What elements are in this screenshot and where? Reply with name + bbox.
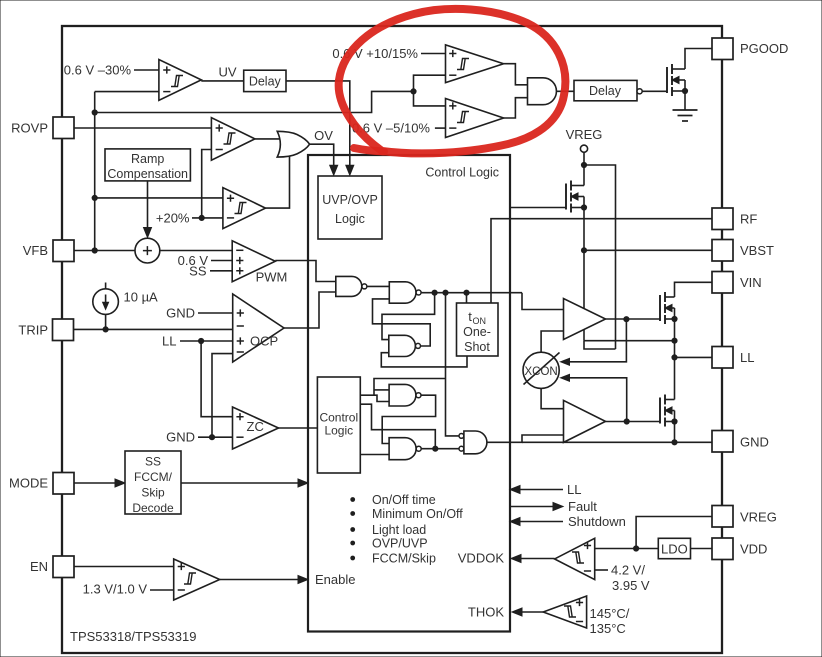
wire RF pin to tON one-shot [491,219,712,303]
comparator OV [211,118,255,161]
wire VDDOK to box [517,558,555,560]
svg-text:GND: GND [166,305,195,320]
svg-text:SS: SS [189,264,207,279]
svg-text:4.2 V/: 4.2 V/ [611,563,645,578]
svg-text:1.3 V/1.0 V: 1.3 V/1.0 V [83,581,148,596]
wire VREG branch right and down [584,165,616,349]
transistor HS-FET gate bar [659,295,661,321]
wire VREG down [583,152,585,185]
wire OR output OV to UVP/OVP logic [310,144,334,169]
svg-text:On/Off time: On/Off time [372,493,436,507]
svg-text:OVP/UVP: OVP/UVP [372,537,428,551]
bullet list [351,498,355,502]
pin TRIP [53,319,74,341]
wire OV comparator plus input (from ROVP) [74,127,211,129]
wire 0.6V ref to PWM [211,260,232,262]
wire 0.6V-5/10% ref [435,127,446,129]
svg-text:VDD: VDD [740,541,767,556]
svg-text:TRIP: TRIP [18,323,48,338]
wire Shutdown input [516,521,563,523]
wire current source to TRIP line [105,314,107,329]
wire HS drain to VIN [675,282,713,297]
svg-text:Compensation: Compensation [107,167,188,181]
pin LL [712,347,733,369]
transistor LS-FET body stub with arrow [665,410,675,412]
node VREG branch [581,162,586,167]
svg-text:VFB: VFB [23,243,48,258]
transistor HS-FET body stub with arrow [665,307,675,309]
comparator window upper (0.6V +10/15%) [446,45,504,83]
wire delay to PGOOD fet gate [642,90,667,92]
wire OCP output to control logic [284,292,336,328]
wire LL to ZC plus [201,341,232,417]
svg-text:Delay: Delay [249,74,282,88]
svg-text:OCP: OCP [250,333,278,348]
comparator window lower (0.6V -5/10%) [446,99,504,138]
svg-text:Minimum On/Off: Minimum On/Off [372,507,463,521]
wire ZC output to control logic box [279,427,318,429]
transistor HS-FET drain stub [665,296,675,298]
node N2 out b [443,290,448,295]
transistor VREG-FET source stub [571,207,584,209]
UVP/OVP logic box [318,176,382,239]
svg-text:FCCM/Skip: FCCM/Skip [372,552,436,566]
pin EN [53,556,74,578]
svg-text:Shutdown: Shutdown [568,514,626,529]
pin VREG [712,506,733,528]
comparator UV (0.6V -30%) [159,60,201,101]
transistor PGOOD-FET drain stub [672,68,685,70]
wire N2 feedback to N3 top input [382,293,435,340]
driver low side [564,400,606,442]
wire OV minus reference [202,150,212,218]
wire VFB to upper window comparator minus [414,75,446,91]
wire +20% comparator plus input [95,197,223,199]
comparator PWM [232,241,275,282]
wire 1.0V ref to EN comp [150,589,174,591]
svg-text:PWM: PWM [256,270,288,285]
wire HS driver output to HS fet gate [606,318,661,320]
XCON circle [523,352,559,388]
wire GND line to pin [522,441,712,443]
wire 0.6V-30% to UV comparator plus [134,69,159,71]
wire N2 bus to N6 top input [446,293,460,436]
node LL pin tap [672,355,677,360]
pin VDD [712,538,733,560]
inverter bubble after delay [637,89,642,94]
wire N3 output feedback to N2 bottom input [373,299,431,346]
svg-text:MODE: MODE [9,476,48,491]
delay box PGOOD [574,80,637,100]
transistor VREG-FET gate bar [565,184,567,210]
delay box UV [244,70,286,91]
wire GND to OCP plus [198,312,233,314]
wire control logic to N4 inputs [360,395,389,401]
wire VDDOK ref label [595,569,608,571]
wire tON trigger from N2 [466,293,468,303]
pin PGOOD [712,38,733,60]
wire OCP minus2 to GND net [212,354,233,438]
node LS gate [624,419,629,424]
wire LL pin line [675,356,713,358]
svg-text:Enable: Enable [315,572,355,587]
wire N4 output to N5 top input [382,395,435,443]
wire LL to OCP plus2 [180,340,233,342]
node LL tap to ZC [199,338,204,343]
svg-text:LL: LL [162,333,176,348]
svg-text:Decode: Decode [132,501,174,515]
svg-text:THOK: THOK [468,605,504,620]
wire PGOOD fet source to ground [684,91,686,110]
transistor HS-FET source stub [665,318,675,320]
svg-text:Light load: Light load [372,523,426,537]
wire ramp compensation to summing node [147,181,149,232]
svg-text:Ramp: Ramp [131,152,164,166]
control logic main box [308,155,510,632]
wire SS to PWM [210,270,232,272]
svg-text:+20%: +20% [156,210,190,225]
wire +20% comparator output to OR gate [266,153,290,208]
current source 10uA [105,283,107,289]
wire LL status input [516,489,563,491]
svg-text:UV: UV [218,65,236,80]
wire LS source to GND line [674,422,676,443]
wire THOK to box [518,611,543,613]
summing node circle [135,238,160,263]
wire LS gate sense to XCON [565,378,627,422]
wire UV comparator minus input [95,91,159,93]
wire TRIP to OCP minus [74,328,233,330]
svg-text:Fault: Fault [568,499,597,514]
svg-text:EN: EN [30,559,48,574]
nand gate N1 (PWM input) [336,276,362,296]
transistor HS-FET channel bar [664,292,666,302]
wire tON one-shot output to N3 bottom input [381,353,467,367]
svg-text:3.95 V: 3.95 V [612,578,650,593]
transistor PGOOD-FET gate bar [666,67,668,93]
wire UV comparator output to Delay [201,80,243,82]
svg-text:ROVP: ROVP [11,121,48,136]
comparator VDDOK [555,538,595,579]
wire VREG fet gate from control logic [510,207,566,209]
wire LDO output to VDDOK comp and VREG pin [595,548,659,550]
wire N6 to LS driver input [487,435,564,442]
wire EN to comparator [73,566,174,568]
node N2 out a [432,290,437,295]
wire +20% reference line [192,217,223,219]
wire VFB feedback vertical [94,92,96,251]
and-gate PGOOD window [528,78,557,105]
transistor LS-FET source stub [665,421,675,423]
wire VBST line [584,249,712,251]
node OV plus tap [92,195,97,200]
nand gate N6 (driver enable) [459,434,464,439]
wire summing node to PWM comparator [160,250,232,252]
svg-text:10 µA: 10 µA [124,290,159,305]
node N2 out c (tON) [464,290,469,295]
svg-text:XCON: XCON [524,366,557,378]
chip outer border [62,26,722,653]
ramp compensation box [105,149,190,181]
svg-text:LL: LL [740,350,754,365]
nand gate N2 [389,282,416,303]
wire XCON to LS driver upper input [541,388,563,408]
node VFB sense junction [92,110,97,115]
svg-text:PGOOD: PGOOD [740,41,788,56]
nand gate N3 [389,335,416,356]
wire LDO to VDD pin [691,548,712,550]
transistor PGOOD-FET body stub with arrow [672,79,685,81]
svg-text:Skip: Skip [141,486,165,500]
svg-text:Delay: Delay [589,84,622,98]
pin GND [712,431,733,453]
pin VIN [712,272,733,294]
comparator +20% [223,188,266,229]
node N5 out [433,446,438,451]
svg-text:FCCM/: FCCM/ [134,470,173,484]
ground symbol PGOOD [673,109,698,111]
transistor LS-FET drain stub [665,399,675,401]
svg-text:LL: LL [567,482,581,497]
node VBST tap [581,248,586,253]
svg-text:One-: One- [463,325,491,339]
pin MODE [53,473,74,495]
or-gate OV window [277,131,309,157]
wire switching node branch [584,341,616,349]
svg-text:VREG: VREG [566,127,603,142]
wire VFB to lower window comparator plus [414,91,446,106]
svg-text:145°C/: 145°C/ [590,606,630,621]
comparator THOK [543,596,586,628]
svg-text:GND: GND [740,434,769,449]
wire N2 bus to high side driver [522,293,564,310]
svg-text:Control Logic: Control Logic [425,166,499,180]
wire PWM output into control logic [275,261,336,282]
pin ROVP [53,117,74,139]
SS FCCM skip decode box [125,451,181,514]
pin RF [712,208,733,230]
node GND tap [672,440,677,445]
wire N1 to N2 [367,285,389,287]
wire XCON to HS driver lower input [541,331,563,352]
wire N5 output to N6 [421,448,459,450]
comparator OCP [233,294,284,362]
wire VFB to summing node [74,250,135,252]
nand gate N5 [389,438,416,460]
svg-text:UVP/OVP: UVP/OVP [322,193,378,207]
wire GND to ZC minus [198,436,233,438]
wire OV comparator output to OR gate [255,138,280,140]
tON one-shot box [457,303,499,356]
node window comparator input junction [411,89,416,94]
wire decode output to control logic [181,482,301,484]
wire LS driver output to LS fet gate [606,421,661,423]
comparator ZC [233,407,279,449]
svg-text:OV: OV [314,128,333,143]
wire HS gate sense to XCON [565,319,626,362]
wire VFB sense horizontal to window comparators [95,91,414,112]
node VFB tap [92,248,97,253]
wire AND to PGOOD delay [557,90,575,92]
transistor VREG-FET channel bar [570,181,572,191]
wire LL sense line [584,340,675,342]
pin VFB [53,240,74,262]
wire 0.6V+10/15% ref [421,53,446,55]
transistor LS-FET channel bar [664,395,666,405]
wire MODE to decode box [73,482,118,484]
node TRIP junction [103,327,108,332]
node HS gate [624,317,629,322]
wire VREG fet source down to VBST [583,208,585,341]
nand gate N4 [389,384,416,406]
svg-text:Control: Control [319,411,358,425]
svg-text:SS: SS [145,455,161,469]
transistor PGOOD-FET source stub [672,90,685,92]
svg-text:135°C: 135°C [590,621,626,636]
driver high side [564,299,606,340]
svg-text:VIN: VIN [740,275,762,290]
wire control logic sense to N5 output node [360,404,435,449]
transistor VREG-FET drain stub [571,185,584,187]
svg-text:VBST: VBST [740,243,774,258]
control logic small box [317,377,360,473]
wire PGOOD fet drain to PGOOD pin [685,49,712,70]
svg-text:VDDOK: VDDOK [458,551,505,566]
svg-text:LDO: LDO [661,541,688,556]
wire EN comparator output Enable [220,579,301,581]
wire HS source to LS drain [674,319,676,400]
transistor PGOOD-FET channel bar [671,64,673,74]
node +20% reference junction [199,215,204,220]
wire lower comparator to AND gate [504,98,528,118]
svg-text:RF: RF [740,212,757,227]
wire Fault status output [510,506,556,508]
comparator EN (1.3V/1.0V) [174,559,220,600]
wire N2 output bus [421,292,522,294]
node LL sense [672,338,677,343]
svg-text:VREG: VREG [740,509,777,524]
node ZC gnd junction [209,435,214,440]
wire control logic to N5 bottom input [360,454,389,456]
transistor LS-FET gate bar [659,398,661,424]
svg-text:0.6 V –30%: 0.6 V –30% [64,63,132,78]
svg-text:ZC: ZC [247,419,264,434]
wire UV delay output to UVP/OVP logic [286,81,350,169]
transistor VREG-FET body stub with arrow [571,196,584,198]
svg-text:TPS53318/TPS53319: TPS53318/TPS53319 [70,629,196,644]
LDO box [658,538,690,558]
svg-text:GND: GND [166,429,195,444]
wire upper comparator to AND gate [504,64,528,85]
svg-text:Logic: Logic [324,424,353,438]
red hand-drawn highlight ellipse [339,9,566,153]
pin VBST [712,240,733,262]
svg-text:Shot: Shot [464,340,490,354]
svg-text:Logic: Logic [335,212,365,226]
